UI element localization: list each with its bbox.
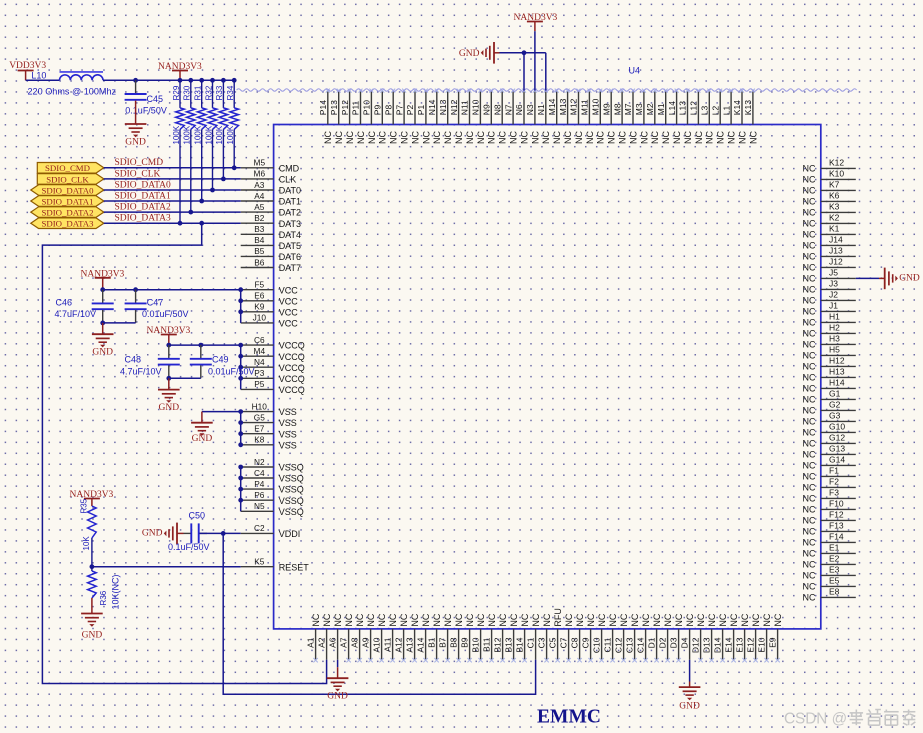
pin E5 (right, NC)	[803, 576, 856, 592]
svg-text:NC: NC	[652, 613, 662, 626]
svg-text:C7: C7	[558, 637, 568, 648]
ground below D4	[679, 682, 701, 712]
svg-text:K12: K12	[829, 158, 844, 168]
svg-text:F1: F1	[829, 466, 839, 476]
IC U4 designator	[629, 65, 641, 75]
junction R33 on SDIO wire	[221, 177, 226, 182]
pin E14 (bottom)	[723, 613, 739, 662]
junction P3	[238, 376, 243, 381]
svg-text:NC: NC	[803, 581, 816, 591]
svg-text:VCCQ: VCCQ	[279, 385, 305, 395]
pin A5 (DAT2)	[241, 202, 301, 218]
svg-text:A14: A14	[415, 637, 425, 652]
svg-text:L10: L10	[31, 71, 46, 81]
svg-text:P4: P4	[254, 479, 265, 489]
svg-text:P3: P3	[254, 368, 265, 378]
svg-text:VDD3V3: VDD3V3	[9, 61, 46, 71]
pin A8 (bottom)	[349, 613, 365, 662]
pin K5 (RESET)	[241, 557, 310, 573]
pin B3 (DAT4)	[241, 224, 301, 240]
capacitor C47	[125, 290, 147, 323]
svg-text:M9: M9	[601, 103, 611, 115]
svg-text:NC: NC	[803, 471, 816, 481]
junction G5	[238, 420, 243, 425]
svg-text:NC: NC	[641, 613, 651, 626]
pin A10 (bottom)	[371, 613, 387, 662]
pin C6 (VCCQ)	[241, 335, 305, 351]
svg-text:10K(NC): 10K(NC)	[111, 574, 121, 609]
svg-text:NC: NC	[399, 613, 409, 626]
svg-text:D13: D13	[701, 637, 711, 653]
junction C46 bottom	[100, 321, 105, 326]
svg-text:NC: NC	[531, 613, 541, 626]
svg-text:VDDI: VDDI	[279, 529, 301, 539]
svg-text:NC: NC	[432, 131, 442, 144]
pin P14 (top, NC)	[318, 89, 333, 144]
pin A4 (DAT1)	[241, 191, 301, 207]
svg-text:NC: NC	[345, 131, 355, 144]
pin K7 (right, NC)	[803, 180, 856, 196]
pin J10 (VCC)	[241, 313, 299, 329]
net label SDIO_DATA1	[115, 191, 171, 201]
svg-text:NC: NC	[563, 131, 573, 144]
pin N5 (VSSQ)	[241, 501, 304, 517]
svg-text:NC: NC	[696, 613, 706, 626]
pin N8 (top, NC)	[492, 89, 507, 144]
pin F5 (VCC)	[241, 280, 299, 296]
svg-text:NC: NC	[803, 372, 816, 382]
svg-text:C8: C8	[569, 637, 579, 648]
pin N10 (top, NC)	[471, 89, 486, 144]
svg-text:NC: NC	[608, 613, 618, 626]
svg-text:NC: NC	[803, 460, 816, 470]
svg-text:DAT5: DAT5	[279, 241, 301, 251]
pin G12 (right, NC)	[803, 433, 856, 449]
pin B2 (DAT3)	[241, 213, 301, 229]
wire C50 to pin C2	[200, 532, 241, 534]
pin B5 (DAT6)	[241, 246, 301, 262]
svg-text:CSDN @: CSDN @	[784, 711, 847, 728]
resistor R32 100K	[204, 78, 217, 190]
svg-text:B5: B5	[254, 246, 265, 256]
svg-text:100K: 100K	[215, 125, 224, 144]
svg-text:VSSQ: VSSQ	[279, 463, 304, 473]
svg-text:C5: C5	[547, 637, 557, 648]
svg-text:SDIO_CMD: SDIO_CMD	[45, 163, 90, 173]
svg-text:P8: P8	[383, 105, 393, 116]
svg-text:DAT0: DAT0	[279, 186, 301, 196]
ground below C48	[158, 378, 180, 413]
pin P2 (top, NC)	[405, 89, 420, 144]
pin F14 (right, NC)	[803, 532, 856, 548]
svg-text:M11: M11	[580, 99, 590, 115]
pin H14 (right, NC)	[803, 378, 856, 394]
svg-text:DAT1: DAT1	[279, 197, 301, 207]
svg-text:NC: NC	[694, 131, 704, 144]
svg-text:VSSQ: VSSQ	[279, 496, 304, 506]
svg-text:H12: H12	[829, 356, 845, 366]
svg-text:R32: R32	[204, 85, 213, 100]
svg-text:K8: K8	[254, 435, 265, 445]
svg-text:E1: E1	[829, 543, 840, 553]
svg-text:NC: NC	[333, 613, 343, 626]
svg-text:B6: B6	[254, 257, 265, 267]
svg-text:E2: E2	[829, 554, 840, 564]
svg-text:K9: K9	[254, 302, 265, 312]
svg-text:NC: NC	[803, 515, 816, 525]
svg-text:NC: NC	[803, 592, 816, 602]
wire SDIO_DATA0	[104, 189, 241, 191]
capacitor C48	[158, 345, 180, 378]
pin N2 (VSSQ)	[241, 457, 304, 473]
svg-text:DAT2: DAT2	[279, 208, 301, 218]
resistor R31 100K	[194, 78, 207, 201]
svg-text:C49: C49	[212, 355, 229, 365]
svg-text:NC: NC	[663, 613, 673, 626]
svg-text:NC: NC	[803, 229, 816, 239]
svg-text:E3: E3	[829, 565, 840, 575]
svg-text:L12: L12	[689, 101, 699, 115]
svg-text:M3: M3	[634, 103, 644, 115]
svg-text:100K: 100K	[183, 125, 192, 144]
svg-text:NC: NC	[630, 613, 640, 626]
svg-text:NC: NC	[520, 613, 530, 626]
pin C11 (bottom)	[602, 613, 618, 662]
svg-text:B4: B4	[254, 235, 265, 245]
svg-text:K3: K3	[829, 202, 840, 212]
net label SDIO_CLK	[115, 169, 161, 179]
pin N9 (top, NC)	[482, 89, 497, 144]
wire SDIO_DATA1	[104, 200, 241, 202]
pin M1 (top, NC)	[656, 89, 671, 144]
wire VCC rail	[103, 290, 241, 323]
svg-text:NC: NC	[552, 131, 562, 144]
svg-text:F14: F14	[829, 532, 844, 542]
pin K10 (right, NC)	[803, 169, 856, 185]
pin J14 (right, NC)	[803, 235, 856, 251]
junction DATA3 branch	[199, 221, 204, 226]
pin F2 (right, NC)	[803, 477, 856, 493]
svg-text:H5: H5	[829, 345, 840, 355]
pin F13 (right, NC)	[803, 521, 856, 537]
svg-text:A5: A5	[254, 202, 265, 212]
svg-text:A4: A4	[254, 191, 265, 201]
svg-text:P11: P11	[351, 100, 361, 115]
pin G13 (right, NC)	[803, 444, 856, 460]
svg-text:K14: K14	[732, 100, 742, 115]
resistor R36 10K(NC)	[88, 567, 121, 610]
svg-text:NC: NC	[803, 207, 816, 217]
svg-text:R35: R35	[80, 498, 89, 513]
svg-text:VSSQ: VSSQ	[279, 507, 304, 517]
resistor R34 100K	[226, 78, 239, 168]
pin C3 (bottom)	[536, 613, 552, 662]
svg-text:L14: L14	[667, 101, 677, 115]
wire L10 to NAND3V3 rail	[103, 79, 234, 81]
svg-text:E13: E13	[734, 637, 744, 652]
inductor L10 value	[28, 86, 117, 96]
pin E7 (VSS)	[241, 424, 297, 440]
pin E6 (VCC)	[241, 291, 299, 307]
port SDIO_DATA2	[31, 207, 104, 218]
svg-text:NC: NC	[454, 131, 464, 144]
svg-text:C4: C4	[254, 468, 265, 478]
svg-text:100K: 100K	[194, 125, 203, 144]
svg-text:NC: NC	[803, 361, 816, 371]
svg-text:NC: NC	[487, 613, 497, 626]
pin D3 (bottom)	[668, 613, 684, 662]
svg-text:NC: NC	[509, 131, 519, 144]
svg-text:B1: B1	[426, 637, 436, 648]
pin H3 (right, NC)	[803, 334, 856, 350]
svg-text:P14: P14	[318, 100, 328, 115]
svg-text:D14: D14	[712, 637, 722, 653]
pin F10 (right, NC)	[803, 499, 856, 515]
svg-text:VSSQ: VSSQ	[279, 485, 304, 495]
svg-text:NC: NC	[803, 504, 816, 514]
pin E1 (right, NC)	[803, 543, 856, 559]
port SDIO_DATA3	[31, 218, 104, 229]
pin B1 (bottom)	[426, 613, 442, 662]
svg-text:GND: GND	[327, 691, 348, 701]
svg-text:NC: NC	[803, 526, 816, 536]
svg-text:GND: GND	[192, 434, 213, 444]
svg-text:4.7uF/10V: 4.7uF/10V	[55, 309, 97, 319]
wire VSSQ rail	[240, 467, 242, 511]
svg-text:P9: P9	[373, 105, 383, 116]
junction P4	[238, 487, 243, 492]
junction F5	[238, 287, 243, 292]
svg-text:0.1uF/50V: 0.1uF/50V	[125, 106, 167, 116]
svg-text:NC: NC	[465, 613, 475, 626]
svg-text:A6: A6	[327, 637, 337, 648]
svg-text:C3: C3	[536, 637, 546, 648]
pin P11 (top, NC)	[351, 89, 366, 144]
junction R34 on SDIO wire	[232, 165, 237, 170]
pin M4 (VCCQ)	[241, 346, 305, 362]
power port NAND3V3 (VCCQ)	[147, 326, 191, 345]
svg-text:NC: NC	[803, 383, 816, 393]
capacitor C48 designator	[124, 355, 141, 365]
svg-text:NC: NC	[716, 131, 726, 144]
svg-text:A10: A10	[371, 637, 381, 652]
pin D4 (bottom)	[679, 613, 695, 660]
svg-text:NC: NC	[377, 613, 387, 626]
svg-text:NC: NC	[443, 613, 453, 626]
svg-text:NC: NC	[803, 240, 816, 250]
svg-text:D2: D2	[657, 637, 667, 648]
svg-text:M14: M14	[547, 98, 557, 115]
wire J5 to ground	[856, 277, 879, 279]
svg-text:NC: NC	[803, 559, 816, 569]
pin G1 (right, NC)	[803, 389, 856, 405]
junction C46 top	[100, 287, 105, 292]
pin C10 (bottom)	[591, 613, 607, 662]
svg-text:G12: G12	[829, 433, 845, 443]
net label SDIO_DATA3	[115, 214, 171, 224]
svg-text:NC: NC	[803, 262, 816, 272]
pin J2 (right, NC)	[803, 290, 856, 306]
svg-text:SDIO_DATA0: SDIO_DATA0	[115, 180, 171, 190]
svg-text:M8: M8	[612, 103, 622, 115]
pin E8 (right, NC)	[803, 587, 856, 603]
svg-text:VCC: VCC	[279, 296, 299, 306]
pin C8 (bottom)	[569, 613, 585, 662]
svg-text:E14: E14	[723, 637, 733, 652]
power port NAND3V3 (VCC)	[81, 269, 125, 289]
svg-text:K13: K13	[743, 100, 753, 115]
svg-text:NC: NC	[465, 131, 475, 144]
svg-text:D4: D4	[679, 637, 689, 648]
svg-text:NC: NC	[803, 537, 816, 547]
svg-text:VCCQ: VCCQ	[279, 374, 305, 384]
wire down to pin N1	[545, 53, 547, 91]
svg-text:M6: M6	[254, 169, 266, 179]
svg-text:N10: N10	[471, 99, 481, 115]
resistor R35 10K	[80, 498, 97, 566]
svg-text:P7: P7	[394, 105, 404, 116]
svg-text:A13: A13	[404, 637, 414, 652]
wire A6 to ground	[337, 660, 339, 667]
svg-text:NC: NC	[322, 613, 332, 626]
svg-text:E10: E10	[756, 637, 766, 652]
svg-text:R31: R31	[194, 85, 203, 100]
svg-text:NC: NC	[748, 131, 758, 144]
pin K9 (VCC)	[241, 302, 299, 318]
svg-text:N5: N5	[254, 501, 265, 511]
svg-text:NC: NC	[628, 131, 638, 144]
svg-text:NC: NC	[803, 251, 816, 261]
pin B10 (bottom)	[470, 613, 486, 662]
capacitor C45 value	[125, 106, 167, 116]
junction at N6 tap	[522, 50, 527, 55]
svg-text:C2: C2	[254, 523, 265, 533]
pin K6 (right, NC)	[803, 191, 856, 207]
svg-text:N3: N3	[525, 104, 535, 115]
svg-text:H3: H3	[829, 334, 840, 344]
pin N4 (VCCQ)	[241, 357, 305, 373]
svg-text:VSS: VSS	[279, 407, 297, 417]
svg-text:NC: NC	[574, 131, 584, 144]
pin K8 (VSS)	[241, 435, 297, 451]
inductor L10	[60, 72, 104, 80]
svg-text:R30: R30	[183, 85, 192, 100]
pin C13 (bottom)	[624, 613, 640, 662]
svg-text:E7: E7	[254, 424, 265, 434]
pin D2 (bottom)	[657, 613, 673, 662]
svg-text:4.7uF/10V: 4.7uF/10V	[120, 367, 162, 377]
svg-text:N6: N6	[514, 104, 524, 115]
svg-text:VCCQ: VCCQ	[279, 341, 305, 351]
svg-text:220 Ohms @ 100Mhz: 220 Ohms @ 100Mhz	[28, 86, 117, 96]
svg-text:NC: NC	[476, 613, 486, 626]
pin C7 (bottom)	[558, 613, 574, 662]
svg-text:NC: NC	[650, 131, 660, 144]
pin D12 (bottom)	[690, 613, 706, 662]
wire SDIO_CMD	[104, 167, 241, 169]
pin N12 (top, NC)	[449, 89, 464, 144]
svg-text:NC: NC	[542, 613, 552, 626]
pin B4 (DAT5)	[241, 235, 301, 251]
pin B9 (bottom)	[459, 613, 475, 662]
no-ERC wavy line along top pins	[237, 89, 857, 91]
svg-text:C46: C46	[55, 297, 72, 307]
junction C6	[238, 343, 243, 348]
svg-text:GND: GND	[679, 702, 700, 712]
svg-text:NC: NC	[586, 613, 596, 626]
junction P6	[238, 498, 243, 503]
svg-text:100K: 100K	[172, 125, 181, 144]
ground (top center)	[459, 42, 500, 64]
svg-text:G1: G1	[829, 389, 841, 399]
svg-text:M12: M12	[569, 98, 579, 115]
svg-text:NC: NC	[366, 613, 376, 626]
pin M5 (CMD)	[241, 158, 300, 174]
capacitor C47 designator	[147, 297, 164, 307]
svg-text:NC: NC	[773, 613, 783, 626]
pin E12 (bottom)	[745, 613, 761, 662]
svg-text:P10: P10	[362, 100, 372, 115]
svg-text:DAT6: DAT6	[279, 252, 301, 262]
svg-text:NC: NC	[421, 613, 431, 626]
svg-text:J5: J5	[829, 268, 838, 278]
svg-text:VSSQ: VSSQ	[279, 474, 304, 484]
pin B8 (bottom)	[448, 613, 464, 662]
svg-text:P13: P13	[329, 100, 339, 115]
capacitor C46 designator	[55, 297, 72, 307]
svg-text:NC: NC	[541, 131, 551, 144]
pin A9 (bottom)	[360, 613, 376, 662]
svg-text:L3: L3	[700, 105, 710, 115]
net label SDIO_DATA2	[115, 203, 171, 213]
pin H1 (right, NC)	[803, 312, 856, 328]
svg-text:F5: F5	[254, 280, 264, 290]
svg-text:H14: H14	[829, 378, 845, 388]
svg-text:F12: F12	[829, 510, 844, 520]
svg-text:H2: H2	[829, 323, 840, 333]
svg-text:VSS: VSS	[279, 418, 297, 428]
svg-text:NC: NC	[311, 613, 321, 626]
svg-text:NC: NC	[705, 131, 715, 144]
svg-text:NC: NC	[509, 613, 519, 626]
svg-text:NC: NC	[803, 328, 816, 338]
pin J13 (right, NC)	[803, 246, 856, 262]
pin P5 (VCCQ)	[241, 379, 305, 395]
pin N13 (top, NC)	[438, 89, 453, 144]
svg-text:SDIO_DATA1: SDIO_DATA1	[115, 191, 171, 201]
pin M6 (CLK)	[241, 169, 297, 185]
capacitor C49 designator	[212, 355, 229, 365]
pin B11 (bottom)	[481, 613, 497, 662]
svg-text:J10: J10	[253, 313, 267, 323]
pin B7 (bottom)	[437, 613, 453, 662]
svg-text:GND: GND	[159, 403, 180, 413]
svg-text:B10: B10	[470, 637, 480, 652]
pin M9 (top, NC)	[601, 89, 616, 144]
pin L12 (top, NC)	[689, 89, 704, 144]
svg-text:NC: NC	[619, 613, 629, 626]
svg-text:NC: NC	[410, 613, 420, 626]
wire DATA3 branch down-left-down	[42, 223, 326, 683]
svg-text:B14: B14	[514, 637, 524, 652]
pin E13 (bottom)	[734, 613, 750, 662]
pin G10 (right, NC)	[803, 422, 856, 438]
svg-text:C12: C12	[613, 637, 623, 653]
capacitor C46	[92, 290, 114, 323]
net label SDIO_DATA0	[115, 180, 171, 190]
IC U4 body outline	[274, 125, 821, 629]
pin C14 (bottom)	[635, 613, 651, 662]
